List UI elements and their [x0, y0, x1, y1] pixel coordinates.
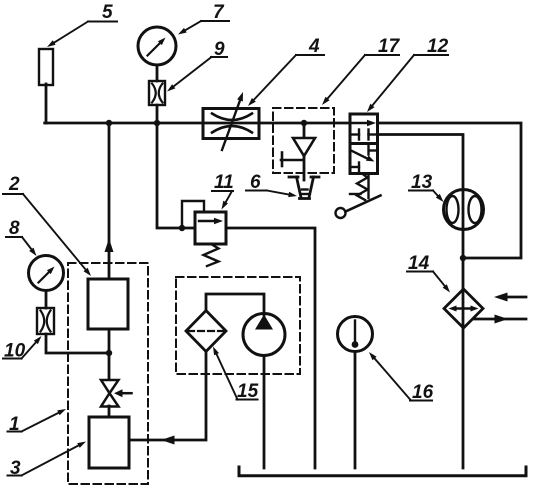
wire regulator 11 output [226, 228, 315, 468]
label 14 [407, 253, 450, 293]
wire gauge 8 stem [45, 291, 48, 309]
label 11 [212, 172, 234, 210]
label 13 [409, 172, 444, 202]
dashed enclosure 17 [273, 108, 334, 173]
pilot line of regulator 11 [182, 201, 204, 228]
lever of valve 12 [336, 174, 381, 219]
label 3 [8, 442, 87, 480]
gauge damper 9 [149, 81, 165, 105]
node junction in box 17 [301, 120, 307, 126]
svg-text:12: 12 [427, 36, 449, 57]
pressure gauge 7 [138, 27, 176, 65]
wire shutoff valve to cylinder 3 [108, 406, 111, 417]
air flow arrow in [494, 293, 526, 302]
wire filter 15 to cylinder 3 [129, 352, 206, 441]
wire filter 15 to pump [206, 294, 264, 315]
node junction above cooler [460, 255, 466, 261]
label 17 [322, 36, 401, 105]
label 16 [369, 352, 434, 403]
wire main to cylinder 2 [108, 123, 111, 279]
label 8 [6, 218, 37, 256]
shutoff valve [101, 380, 132, 407]
label 7 [178, 2, 229, 35]
label 2 [3, 174, 91, 276]
cylinder 3 [89, 417, 129, 468]
svg-text:8: 8 [9, 218, 20, 239]
pressure gauge 8 [29, 256, 64, 291]
filter 15 [186, 311, 226, 352]
relief valve 17 [281, 123, 315, 180]
wire gauge 7 stem [156, 65, 159, 123]
filter 5 [39, 49, 53, 85]
label 4 [248, 36, 324, 106]
sight glass 13 [444, 190, 484, 230]
wire filter 5 to main line [45, 84, 48, 123]
flow arrow into cylinder 3 [161, 436, 175, 445]
variable throttle 4 [203, 92, 259, 150]
wire valve 12 top output [378, 123, 522, 258]
pump [243, 314, 285, 356]
dashed enclosure 1 [68, 263, 148, 484]
label 12 [367, 36, 449, 112]
wire branch to regulator 11 [157, 123, 195, 228]
tank [239, 467, 526, 476]
wire pump to tank [263, 356, 266, 469]
label 10 [3, 336, 42, 362]
pressure regulator 11 [195, 212, 226, 244]
svg-text:7: 7 [213, 2, 225, 23]
wire main supply line [45, 122, 350, 125]
label 5 [47, 2, 117, 47]
svg-text:5: 5 [102, 2, 113, 23]
cylinder 2 [88, 279, 128, 329]
air flow arrow out [474, 315, 526, 324]
spring of valve 12 [357, 174, 368, 201]
label 15 [213, 347, 259, 403]
node junction at pilot tap [179, 225, 185, 231]
wire cylinder 2 to shutoff valve [108, 329, 111, 380]
spring of regulator 11 [204, 244, 219, 266]
wire valve 12 second output [378, 135, 464, 259]
thermometer 16 [338, 317, 373, 352]
cooler 14 [444, 289, 483, 328]
wire cooler to tank [462, 258, 465, 468]
wire gauge 8 to junction [46, 334, 109, 353]
flow arrow up [105, 239, 114, 253]
node junction at regulator branch [154, 120, 160, 126]
label 6 [246, 172, 297, 197]
wire thermometer to tank [354, 351, 357, 468]
label 1 [8, 409, 67, 435]
dashed enclosure 15 [176, 277, 300, 374]
directional valve 12 [350, 114, 378, 174]
node junction at gauge 8 branch [106, 350, 112, 356]
label 9 [167, 39, 227, 92]
svg-text:4: 4 [308, 36, 320, 57]
node junction at gauge branch [106, 120, 112, 126]
gauge damper 10 [37, 308, 54, 334]
svg-text:2: 2 [8, 174, 20, 195]
drain funnel 6 [289, 177, 319, 199]
svg-text:17: 17 [378, 36, 401, 57]
svg-text:11: 11 [214, 172, 234, 193]
